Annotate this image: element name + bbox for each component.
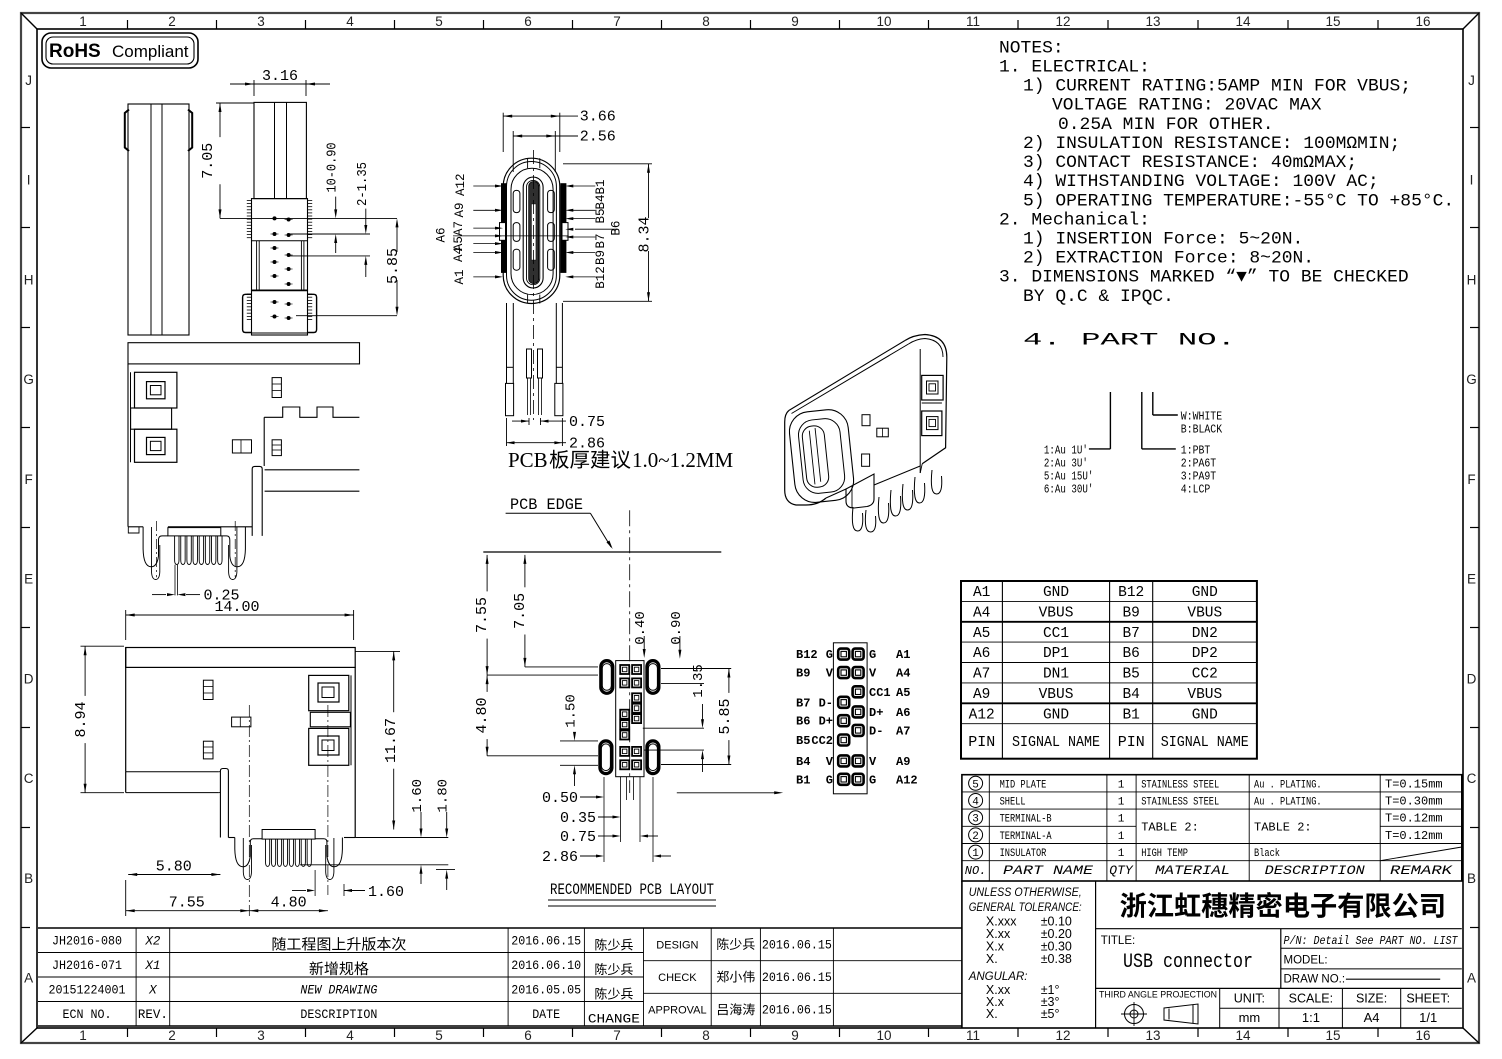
svg-text:X2: X2: [144, 935, 161, 949]
dims 7.55 / 4.80: [125, 880, 127, 916]
svg-text:V: V: [826, 755, 834, 769]
dim 2.86 cross-section: [506, 418, 508, 446]
svg-text:B12: B12: [1118, 585, 1144, 601]
dim 4.80 pcb: [486, 675, 488, 692]
svg-text:11.67: 11.67: [383, 718, 400, 763]
svg-text:B9: B9: [1122, 605, 1139, 621]
bill of materials table: [962, 775, 1462, 881]
svg-text:G: G: [826, 773, 833, 787]
svg-text:THIRD ANGLE PROJECTION: THIRD ANGLE PROJECTION: [1099, 990, 1217, 1001]
svg-text:7: 7: [613, 1028, 621, 1043]
svg-text:E: E: [24, 572, 33, 587]
svg-text:4.80: 4.80: [271, 895, 307, 912]
dim 3.16: [253, 80, 255, 96]
svg-text:CHANGE: CHANGE: [588, 1013, 640, 1027]
svg-text:12: 12: [1055, 14, 1070, 29]
svg-text:0.90: 0.90: [669, 611, 685, 645]
svg-text:15: 15: [1325, 1028, 1340, 1043]
svg-text:Compliant: Compliant: [112, 42, 189, 61]
svg-text:SHELL: SHELL: [1000, 797, 1026, 809]
svg-text:B7: B7: [594, 233, 608, 248]
svg-text:2016.06.15: 2016.06.15: [762, 938, 832, 952]
svg-text:B12: B12: [594, 266, 608, 289]
dim 7.05: [216, 102, 254, 104]
view D: connector top view: [126, 648, 356, 838]
dim 0.25: [174, 565, 176, 596]
revision and approval table: [38, 927, 962, 929]
svg-text:DATE: DATE: [532, 1008, 560, 1022]
svg-text:PCB EDGE: PCB EDGE: [510, 496, 583, 514]
svg-text:D-: D-: [869, 724, 883, 738]
view X: receptacle cross-section: [503, 158, 560, 303]
svg-text:A6: A6: [434, 227, 448, 242]
svg-text:4:LCP: 4:LCP: [1181, 482, 1211, 496]
svg-text:13: 13: [1145, 1028, 1160, 1043]
svg-text:A1: A1: [453, 269, 467, 284]
svg-text:B5: B5: [1122, 667, 1139, 683]
svg-text:2:PA6T: 2:PA6T: [1181, 456, 1216, 470]
svg-text:2.86: 2.86: [569, 436, 605, 453]
svg-text:B9: B9: [796, 667, 810, 681]
svg-text:A6: A6: [896, 706, 910, 720]
svg-text:2016.06.15: 2016.06.15: [511, 935, 581, 949]
svg-text:2: 2: [168, 1028, 176, 1043]
svg-text:VBUS: VBUS: [1039, 605, 1074, 621]
svg-text:2: 2: [168, 14, 176, 29]
svg-text:T=0.12mm: T=0.12mm: [1385, 812, 1443, 826]
view C: connector side elevation: [128, 343, 360, 364]
svg-text:8.34: 8.34: [637, 216, 654, 252]
svg-text:SHEET:: SHEET:: [1406, 992, 1450, 1006]
svg-text:1:PBT: 1:PBT: [1181, 443, 1211, 457]
svg-text:A7: A7: [896, 724, 910, 738]
dim 1.60 bottom: [314, 870, 316, 896]
svg-text:PCB: PCB: [508, 448, 548, 472]
svg-text:JH2016-080: JH2016-080: [52, 935, 122, 949]
dim 5.85 pcb: [728, 669, 730, 693]
svg-text:A12: A12: [969, 707, 995, 723]
svg-text:A: A: [24, 971, 33, 986]
svg-text:HIGH TEMP: HIGH TEMP: [1141, 848, 1188, 860]
svg-text:7: 7: [613, 14, 621, 29]
svg-text:D-: D-: [819, 696, 833, 710]
svg-text:1: 1: [1118, 797, 1125, 809]
svg-text:SIGNAL NAME: SIGNAL NAME: [1012, 734, 1100, 751]
RoHS Compliant badge: [42, 33, 198, 68]
dim 2.56: [512, 131, 514, 172]
svg-text:A4: A4: [973, 605, 990, 621]
svg-text:CHECK: CHECK: [658, 972, 697, 984]
svg-text:J: J: [1468, 73, 1475, 88]
svg-text:5.85: 5.85: [717, 698, 734, 734]
svg-text:SIZE:: SIZE:: [1356, 992, 1387, 1006]
svg-text:G: G: [826, 648, 833, 662]
svg-text:1) CURRENT RATING:5AMP MIN FOR: 1) CURRENT RATING:5AMP MIN FOR VBUS;: [1023, 77, 1411, 97]
svg-text:B4: B4: [796, 755, 810, 769]
svg-text:TITLE:: TITLE:: [1101, 935, 1136, 947]
svg-text:1) INSERTION Force: 5~20N.: 1) INSERTION Force: 5~20N.: [1023, 230, 1303, 250]
svg-text:C: C: [1467, 771, 1477, 786]
svg-text:B6: B6: [1122, 646, 1139, 662]
svg-text:B4: B4: [1122, 687, 1139, 703]
svg-text:10-0.90: 10-0.90: [325, 143, 341, 193]
svg-text:A9: A9: [973, 687, 990, 703]
svg-text:UNLESS OTHERWISE,: UNLESS OTHERWISE,: [969, 887, 1082, 899]
svg-text:REMARK: REMARK: [1390, 863, 1454, 878]
svg-text:0.75: 0.75: [569, 414, 605, 431]
dim 8.94: [81, 645, 125, 647]
svg-text:2:Au 3U': 2:Au 3U': [1044, 456, 1088, 470]
svg-text:1.35: 1.35: [691, 664, 707, 698]
svg-text:GENERAL TOLERANCE:: GENERAL TOLERANCE:: [969, 902, 1082, 914]
dim 3.66: [502, 113, 504, 152]
svg-text:14: 14: [1235, 14, 1251, 29]
dim 11.67: [393, 651, 395, 712]
svg-text:2. Mechanical:: 2. Mechanical:: [999, 210, 1150, 230]
reference lines view B: [220, 217, 397, 219]
svg-text:I: I: [1470, 173, 1474, 188]
svg-text:DESCRIPTION: DESCRIPTION: [1265, 863, 1365, 878]
svg-text:APPROVAL: APPROVAL: [648, 1005, 707, 1017]
svg-text:8.94: 8.94: [73, 701, 90, 737]
dim 8.34: [563, 163, 652, 165]
svg-text:DP1: DP1: [1043, 646, 1069, 662]
svg-text:E: E: [1467, 572, 1476, 587]
svg-text:A9: A9: [896, 755, 910, 769]
svg-text:QTY: QTY: [1109, 863, 1134, 878]
svg-text:1.60: 1.60: [368, 884, 404, 901]
svg-text:Au . PLATING.: Au . PLATING.: [1254, 797, 1322, 809]
svg-text:mm: mm: [1239, 1010, 1261, 1025]
svg-text:B: B: [1467, 871, 1476, 886]
svg-text:A5: A5: [896, 686, 910, 700]
svg-text:5: 5: [972, 779, 979, 791]
svg-text:3.66: 3.66: [580, 109, 616, 126]
svg-text:4. PART NO.: 4. PART NO.: [1023, 330, 1236, 350]
svg-text:16: 16: [1415, 14, 1430, 29]
dim 5.80: [128, 874, 220, 876]
svg-text:GND: GND: [1043, 707, 1069, 723]
svg-text:DESIGN: DESIGN: [656, 939, 698, 951]
svg-text:8: 8: [702, 14, 710, 29]
svg-text:GND: GND: [1192, 707, 1218, 723]
svg-text:1.50: 1.50: [564, 694, 580, 728]
svg-text:B6: B6: [610, 221, 624, 236]
svg-text:1: 1: [972, 848, 979, 860]
svg-text:TABLE 2:: TABLE 2:: [1141, 821, 1199, 835]
svg-text:3:PA9T: 3:PA9T: [1181, 469, 1216, 483]
dim 5.85 view B: [396, 224, 398, 252]
svg-text:TERMINAL-A: TERMINAL-A: [1000, 831, 1052, 843]
svg-text:NEW DRAWING: NEW DRAWING: [300, 984, 377, 998]
svg-text:A4: A4: [452, 247, 466, 262]
svg-text:6:Au 30U': 6:Au 30U': [1044, 482, 1094, 496]
svg-text:X1: X1: [144, 959, 160, 973]
svg-text:10: 10: [876, 14, 891, 29]
svg-text:3.16: 3.16: [262, 68, 298, 85]
svg-text:1/1: 1/1: [1419, 1010, 1437, 1025]
svg-text:A6: A6: [973, 646, 990, 662]
svg-text:9: 9: [791, 1028, 799, 1043]
svg-text:2) INSULATION RESISTANCE: 100M: 2) INSULATION RESISTANCE: 100MΩMIN;: [1023, 134, 1400, 154]
svg-text:1: 1: [1118, 831, 1125, 843]
svg-text:B5: B5: [594, 208, 608, 223]
svg-text:RECOMMENDED PCB LAYOUT: RECOMMENDED PCB LAYOUT: [550, 881, 714, 899]
svg-text:7.05: 7.05: [200, 143, 217, 179]
svg-text:4) WITHSTANDING VOLTAGE: 100V: 4) WITHSTANDING VOLTAGE: 100V AC;: [1023, 172, 1379, 192]
svg-text:5: 5: [435, 14, 443, 29]
svg-text:0.35: 0.35: [560, 810, 596, 827]
svg-text:12: 12: [1055, 1028, 1070, 1043]
svg-text:B12: B12: [796, 648, 818, 662]
svg-text:NOTES:: NOTES:: [999, 38, 1064, 58]
svg-text:0.40: 0.40: [633, 611, 649, 645]
svg-text:14: 14: [1235, 1028, 1251, 1043]
svg-text:D+: D+: [869, 706, 883, 720]
svg-text:4: 4: [972, 797, 979, 809]
svg-text:B5: B5: [796, 734, 810, 748]
svg-text:6: 6: [524, 1028, 532, 1043]
svg-text:JH2016-071: JH2016-071: [52, 959, 122, 973]
svg-text:V: V: [869, 755, 877, 769]
svg-text:±5°: ±5°: [1041, 1007, 1060, 1021]
svg-text:DESCRIPTION: DESCRIPTION: [300, 1008, 377, 1022]
svg-text:Black: Black: [1254, 848, 1280, 860]
svg-text:1: 1: [1118, 814, 1125, 826]
svg-text:A4: A4: [896, 667, 910, 681]
svg-text:CC2: CC2: [1192, 667, 1218, 683]
svg-text:VBUS: VBUS: [1187, 687, 1222, 703]
svg-text:UNIT:: UNIT:: [1234, 992, 1265, 1006]
svg-text:A5: A5: [973, 626, 990, 642]
svg-text:1: 1: [1118, 779, 1125, 791]
svg-text:B7: B7: [1122, 626, 1139, 642]
svg-text:W:WHITE: W:WHITE: [1181, 409, 1222, 423]
svg-text:A1: A1: [973, 585, 990, 601]
svg-text:H: H: [1467, 272, 1477, 287]
svg-text:A4: A4: [1364, 1010, 1380, 1025]
svg-text:MATERIAL: MATERIAL: [1155, 863, 1230, 878]
svg-text:GND: GND: [1192, 585, 1218, 601]
svg-text:B6: B6: [796, 715, 810, 729]
svg-text:13: 13: [1145, 14, 1160, 29]
svg-text:STAINLESS STEEL: STAINLESS STEEL: [1141, 797, 1219, 809]
svg-text:4.80: 4.80: [474, 697, 491, 733]
svg-text:A12: A12: [454, 174, 468, 197]
svg-text:14.00: 14.00: [214, 599, 259, 616]
svg-text:5: 5: [435, 1028, 443, 1043]
svg-text:DP2: DP2: [1192, 646, 1218, 662]
svg-text:PIN: PIN: [1118, 734, 1145, 751]
svg-text:0.50: 0.50: [542, 790, 578, 807]
svg-text:GND: GND: [1043, 585, 1069, 601]
svg-text:ANGULAR:: ANGULAR:: [968, 971, 1028, 983]
svg-text:SIGNAL NAME: SIGNAL NAME: [1161, 734, 1249, 751]
svg-text:TABLE 2:: TABLE 2:: [1254, 821, 1312, 835]
pad detail with pin names: [833, 643, 867, 794]
svg-text:V: V: [826, 667, 834, 681]
svg-text:4: 4: [346, 1028, 354, 1043]
svg-text:1.80: 1.80: [436, 779, 452, 813]
svg-text:T=0.12mm: T=0.12mm: [1385, 829, 1443, 843]
svg-text:RoHS: RoHS: [49, 41, 101, 62]
svg-text:A: A: [1467, 971, 1476, 986]
svg-text:G: G: [869, 648, 876, 662]
svg-text:DRAW NO.:: DRAW NO.:: [1284, 974, 1346, 986]
svg-text:X.: X.: [986, 952, 998, 966]
svg-text:STAINLESS STEEL: STAINLESS STEEL: [1141, 779, 1219, 791]
svg-text:T=0.15mm: T=0.15mm: [1385, 777, 1443, 791]
svg-text:±0.38: ±0.38: [1041, 952, 1072, 966]
svg-text:VBUS: VBUS: [1039, 687, 1074, 703]
svg-text:2.56: 2.56: [580, 129, 616, 146]
svg-text:1: 1: [79, 14, 87, 29]
svg-text:B7: B7: [796, 696, 810, 710]
svg-text:A12: A12: [896, 773, 918, 787]
view E: isometric 3D connector: [789, 341, 905, 411]
svg-text:3) CONTACT RESISTANCE: 40mΩMAX: 3) CONTACT RESISTANCE: 40mΩMAX;: [1023, 153, 1357, 173]
svg-text:PART NAME: PART NAME: [1003, 863, 1093, 878]
svg-text:I: I: [27, 173, 31, 188]
svg-text:7.05: 7.05: [512, 593, 529, 629]
svg-text:B1: B1: [796, 773, 810, 787]
svg-text:2-1.35: 2-1.35: [355, 162, 371, 206]
svg-text:3: 3: [257, 1028, 265, 1043]
svg-text:3: 3: [257, 14, 265, 29]
svg-text:A7: A7: [452, 221, 466, 236]
title block grid: [961, 881, 963, 1028]
svg-text:5.80: 5.80: [156, 859, 192, 876]
svg-text:B1: B1: [1122, 707, 1139, 723]
svg-text:USB connector: USB connector: [1123, 951, 1253, 974]
svg-text:G: G: [869, 773, 876, 787]
svg-text:3. DIMENSIONS MARKED “▼” TO BE: 3. DIMENSIONS MARKED “▼” TO BE CHECKED: [999, 268, 1409, 288]
svg-text:2.86: 2.86: [542, 849, 578, 866]
svg-text:1.0~1.2MM: 1.0~1.2MM: [632, 448, 734, 472]
svg-text:PIN: PIN: [968, 734, 995, 751]
svg-text:D+: D+: [819, 715, 833, 729]
dim 14.00: [125, 610, 127, 640]
svg-text:DN2: DN2: [1192, 626, 1218, 642]
svg-text:A9: A9: [453, 202, 467, 217]
pin assignment table: [961, 581, 1257, 759]
svg-text:0.75: 0.75: [560, 829, 596, 846]
svg-text:MID PLATE: MID PLATE: [1000, 779, 1047, 791]
svg-text:3: 3: [972, 814, 979, 826]
svg-text:1: 1: [1118, 848, 1125, 860]
svg-text:D: D: [24, 671, 34, 686]
svg-text:2016.06.15: 2016.06.15: [762, 1004, 832, 1018]
svg-text:NO.: NO.: [965, 864, 987, 878]
svg-text:MODEL:: MODEL:: [1284, 955, 1328, 967]
svg-text:1:1: 1:1: [1302, 1010, 1320, 1025]
svg-text:B: B: [24, 871, 33, 886]
part number legend tree: [1109, 392, 1111, 449]
svg-text:8: 8: [702, 1028, 710, 1043]
svg-text:7.55: 7.55: [169, 895, 205, 912]
svg-text:5) OPERATING TEMPERATURE:-55°C: 5) OPERATING TEMPERATURE:-55°C TO +85°C.: [1023, 191, 1454, 211]
svg-text:SCALE:: SCALE:: [1289, 992, 1333, 1006]
svg-text:4: 4: [346, 14, 354, 29]
svg-text:1: 1: [79, 1028, 87, 1043]
svg-text:Au . PLATING.: Au . PLATING.: [1254, 779, 1322, 791]
svg-text:CC1: CC1: [869, 686, 891, 700]
svg-text:BY Q.C & IPQC.: BY Q.C & IPQC.: [1023, 287, 1174, 307]
svg-text:D: D: [1467, 671, 1477, 686]
svg-text:5.85: 5.85: [385, 248, 402, 284]
svg-text:10: 10: [876, 1028, 891, 1043]
svg-text:X: X: [148, 984, 157, 998]
svg-text:16: 16: [1415, 1028, 1430, 1043]
view A: plug side profile: [128, 104, 189, 335]
view B: mating face front view: [254, 102, 306, 198]
svg-text:CC2: CC2: [811, 734, 833, 748]
dim 0.75 cross-section: [528, 418, 530, 425]
svg-text:5:Au 15U': 5:Au 15U': [1044, 469, 1094, 483]
svg-text:F: F: [24, 472, 32, 487]
svg-text:T=0.30mm: T=0.30mm: [1385, 795, 1443, 809]
svg-text:15: 15: [1325, 14, 1340, 29]
svg-text:2) EXTRACTION Force: 8~20N.: 2) EXTRACTION Force: 8~20N.: [1023, 249, 1314, 269]
svg-text:B4: B4: [594, 194, 608, 209]
svg-text:VOLTAGE RATING: 20VAC MAX: VOLTAGE RATING: 20VAC MAX: [1052, 96, 1322, 116]
svg-text:G: G: [1466, 372, 1477, 387]
svg-text:F: F: [1467, 472, 1475, 487]
svg-text:1.60: 1.60: [410, 779, 426, 813]
svg-text:11: 11: [966, 1028, 980, 1043]
company name: [1120, 892, 1443, 918]
svg-text:B:BLACK: B:BLACK: [1181, 422, 1223, 436]
svg-text:2016.06.10: 2016.06.10: [511, 959, 581, 973]
svg-text:20151224001: 20151224001: [49, 984, 126, 998]
svg-text:2016.06.15: 2016.06.15: [762, 971, 832, 985]
svg-text:A7: A7: [973, 667, 990, 683]
svg-text:P/N: Detail See PART NO. LIST: P/N: Detail See PART NO. LIST: [1284, 935, 1459, 948]
svg-text:TERMINAL-B: TERMINAL-B: [1000, 814, 1052, 826]
svg-text:CC1: CC1: [1043, 626, 1069, 642]
svg-text:X.: X.: [986, 1007, 998, 1021]
svg-text:DN1: DN1: [1043, 667, 1069, 683]
svg-text:2016.05.05: 2016.05.05: [511, 984, 581, 998]
svg-text:INSULATOR: INSULATOR: [1000, 848, 1047, 860]
svg-text:1. ELECTRICAL:: 1. ELECTRICAL:: [999, 58, 1150, 78]
svg-text:G: G: [23, 372, 34, 387]
svg-text:ECN NO.: ECN NO.: [63, 1008, 112, 1022]
svg-text:VBUS: VBUS: [1187, 605, 1222, 621]
svg-text:1:Au 1U': 1:Au 1U': [1044, 443, 1088, 457]
dims 7.55/7.05 pcb: [486, 555, 488, 592]
svg-text:A1: A1: [896, 648, 910, 662]
svg-text:C: C: [24, 771, 34, 786]
svg-text:REV.: REV.: [138, 1008, 168, 1022]
svg-text:0.25A MIN FOR OTHER.: 0.25A MIN FOR OTHER.: [1058, 115, 1274, 135]
svg-text:7.55: 7.55: [474, 597, 491, 633]
svg-text:V: V: [869, 667, 877, 681]
svg-text:9: 9: [791, 14, 799, 29]
svg-text:2: 2: [972, 831, 979, 843]
svg-text:B9: B9: [594, 250, 608, 265]
svg-text:H: H: [24, 272, 34, 287]
svg-text:6: 6: [524, 14, 532, 29]
svg-text:J: J: [25, 73, 32, 88]
svg-text:B1: B1: [594, 179, 608, 194]
svg-text:11: 11: [966, 14, 980, 29]
